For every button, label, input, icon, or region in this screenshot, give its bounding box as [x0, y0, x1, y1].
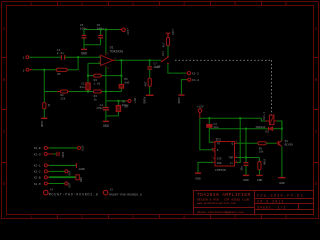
svg-text:100n: 100n — [80, 27, 87, 30]
svg-text:D1: D1 — [265, 131, 269, 134]
svg-text:B: B — [3, 77, 6, 83]
wire AGND branch vertical — [43, 70, 45, 92]
svg-text:TR: TR — [217, 142, 221, 145]
node top rail U1 supply — [105, 29, 107, 31]
ground GND below C4 — [105, 116, 107, 121]
wire +12V top rail — [84, 29, 120, 31]
wire U1 supply rail — [105, 30, 107, 54]
svg-text:220u: 220u — [122, 104, 129, 107]
svg-text:GND: GND — [80, 177, 83, 182]
svg-text:D: D — [315, 181, 318, 187]
node THR cv junction — [245, 157, 247, 159]
svg-text:2.2u: 2.2u — [57, 52, 64, 55]
relay switch RL1 — [167, 56, 169, 58]
svg-text:THR: THR — [228, 157, 233, 160]
frame column numbers top — [30, 1, 288, 7]
svg-text:X4-2: X4-2 — [192, 79, 199, 82]
wire rail corner to coil — [261, 118, 265, 121]
ground GND c10 — [243, 174, 249, 176]
svg-text:+12V: +12V — [81, 145, 84, 152]
wire output node row — [106, 100, 126, 102]
node row CV branch — [245, 128, 247, 130]
node row B rail — [87, 91, 89, 93]
svg-text:2: 2 — [81, 214, 84, 220]
svg-text:RL1-1: RL1-1 — [263, 112, 266, 120]
svg-text:1N4004: 1N4004 — [255, 126, 265, 129]
node plus input junction — [77, 56, 79, 58]
resistor R5 on feedback rail — [120, 60, 122, 91]
mount pad X2 — [103, 190, 108, 195]
wire R9 to Q1 base — [266, 142, 276, 144]
node out row cap C8 — [117, 100, 119, 102]
svg-text:K2-B: K2-B — [34, 177, 41, 180]
capacitor C6 — [100, 30, 102, 45]
svg-text:10k: 10k — [259, 150, 264, 154]
dashed relay actuation line horizontal — [175, 59, 272, 61]
node collector diode junction — [281, 128, 283, 130]
svg-text:+12V: +12V — [126, 28, 129, 35]
svg-text:GND: GND — [243, 179, 249, 182]
svg-text:23.3.2012: 23.3.2012 — [257, 201, 284, 205]
svg-text:22k: 22k — [60, 96, 65, 100]
svg-text:K3-B: K3-B — [34, 147, 41, 150]
ground AGND below X4-2 — [178, 94, 184, 96]
svg-text:1: 1 — [30, 214, 33, 220]
wire C1 to U1 plus input — [65, 56, 101, 58]
frame section ticks left — [2, 58, 7, 163]
frame section ticks bottom — [58, 215, 262, 219]
svg-text:D: D — [3, 181, 6, 187]
svg-text:Sheet: 1/1: Sheet: 1/1 — [257, 206, 286, 211]
svg-text:LM555N: LM555N — [215, 169, 226, 172]
svg-text:LSP: LSP — [155, 66, 160, 69]
wire relay to X3-2 — [168, 64, 186, 73]
svg-text:1: 1 — [30, 1, 33, 7]
svg-text:C: C — [315, 129, 318, 135]
svg-text:GND: GND — [103, 124, 109, 128]
svg-text:1M: 1M — [57, 73, 61, 76]
svg-text:K2-1: K2-1 — [34, 165, 41, 168]
svg-text:K3-O: K3-O — [34, 153, 41, 156]
svg-text:denon-vincasound@gmail.com: denon-vincasound@gmail.com — [197, 210, 244, 214]
svg-text:2: 2 — [81, 1, 84, 7]
ground GND q1 — [278, 177, 285, 179]
relay coil K1 — [269, 115, 274, 124]
ground GND under C5 — [83, 45, 85, 49]
resistor R3 1.8k — [94, 74, 102, 77]
node rail Vplus — [239, 117, 241, 119]
svg-text:X2: X2 — [110, 189, 114, 192]
svg-text:4R7: 4R7 — [144, 81, 147, 86]
svg-text:AGND: AGND — [142, 97, 145, 104]
svg-text:2: 2 — [23, 69, 25, 72]
svg-text:X4: X4 — [50, 189, 54, 192]
pin 3 stub U1 — [105, 66, 107, 68]
svg-text:www.audiodesignclub.com: www.audiodesignclub.com — [197, 201, 236, 205]
frame row letters right — [315, 26, 318, 187]
svg-text:RL1: RL1 — [162, 51, 165, 56]
svg-text:AGND: AGND — [177, 97, 180, 104]
node output feedback tap — [120, 59, 122, 61]
svg-text:DIS: DIS — [217, 157, 222, 160]
wire K2-B row thick — [49, 176, 76, 178]
transistor Q1 — [278, 141, 280, 146]
wire IC1 GND pin to ground — [198, 162, 213, 172]
svg-text:GND: GND — [81, 52, 87, 56]
power flag OUT — [128, 99, 131, 102]
wire K2-2 row — [49, 170, 64, 172]
capacitor C8 220u — [117, 101, 119, 116]
node rail C3 — [208, 117, 210, 119]
capacitor C7 zobel — [149, 60, 151, 78]
power flag +12V top — [120, 29, 122, 31]
svg-text:GND: GND — [257, 179, 263, 182]
svg-text:TDA2030 AMPLIFIER: TDA2030 AMPLIFIER — [197, 192, 251, 198]
svg-text:3: 3 — [132, 1, 135, 7]
svg-text:AGND: AGND — [40, 121, 43, 128]
mount pad X4 — [44, 190, 49, 195]
svg-text:OUT: OUT — [68, 170, 71, 175]
capacitor C3 — [208, 118, 210, 129]
resistor R4 1k — [94, 90, 102, 93]
wire caps bottom row — [106, 115, 119, 117]
svg-text:IC1: IC1 — [215, 137, 221, 141]
resistor R6 zobel 4R7 — [148, 78, 151, 86]
wire feedback row B — [44, 91, 121, 93]
node input2 junction — [43, 69, 45, 71]
frame section ticks right — [314, 58, 319, 163]
frame section ticks top — [58, 2, 262, 6]
wire C5 C6 bottom row — [84, 44, 101, 46]
wire collector rail — [281, 121, 283, 141]
power flag +12V k3 — [78, 146, 81, 149]
svg-text:GND: GND — [195, 177, 201, 180]
svg-text:AGND: AGND — [79, 168, 86, 171]
wire minus input row — [88, 62, 101, 64]
capacitor C10 — [244, 163, 249, 166]
capacitor C2 22u — [86, 83, 90, 90]
wire C2 rail — [87, 63, 89, 91]
svg-text:100n: 100n — [61, 152, 64, 159]
pin 4 bubble — [213, 149, 215, 151]
capacitor C1 — [61, 55, 64, 60]
svg-text:4: 4 — [183, 214, 186, 220]
svg-text:22u: 22u — [80, 86, 85, 89]
capacitor C4 — [105, 101, 107, 116]
svg-text:4k7: 4k7 — [162, 42, 166, 47]
svg-text:MOUNT-PAD-ROUND2.8: MOUNT-PAD-ROUND2.8 — [49, 192, 99, 196]
dashed relay actuation line vertical — [271, 60, 273, 115]
svg-text:100u: 100u — [97, 27, 104, 30]
wire C3 bottom row to diode — [209, 128, 268, 130]
wire +12V rail mid — [200, 117, 261, 119]
wire feedback row A — [88, 75, 121, 77]
connector pad input 2 — [26, 68, 29, 71]
svg-text:OUT: OUT — [68, 182, 71, 187]
pin 5 stub U1 — [105, 53, 107, 55]
svg-text:GND: GND — [217, 162, 222, 165]
ground GND ic1 — [195, 172, 201, 174]
svg-text:K2-2: K2-2 — [34, 171, 41, 174]
node top rail C6 — [100, 29, 102, 31]
wire K2-M row — [49, 183, 64, 185]
IC1 555 box — [215, 142, 235, 167]
node C2 rail row A — [87, 75, 89, 77]
svg-text:A: A — [3, 26, 6, 32]
svg-text:GND: GND — [279, 182, 285, 185]
svg-text:10n: 10n — [240, 166, 243, 171]
wire jog junction down to R1 row — [77, 57, 79, 70]
svg-text:OUT: OUT — [133, 98, 136, 103]
resistor R8 to AGND lower left — [43, 92, 45, 103]
svg-text:5: 5 — [234, 1, 237, 7]
terminator GND k2-b — [76, 175, 79, 180]
svg-text:5: 5 — [234, 214, 237, 220]
diode D1 — [267, 127, 269, 131]
resistor R9 10k — [258, 142, 266, 145]
wire X4-2 to AGND — [186, 79, 188, 81]
ground AGND zobel — [146, 94, 154, 96]
ground GND r10 — [256, 174, 262, 176]
svg-text:TDA2030: TDA2030 — [110, 49, 123, 53]
svg-text:B: B — [315, 77, 318, 83]
svg-text:6: 6 — [285, 1, 288, 7]
svg-text:+12V: +12V — [171, 28, 174, 35]
svg-text:1.8k: 1.8k — [94, 82, 101, 86]
title block — [194, 191, 314, 215]
resistor R2 22k — [60, 90, 67, 93]
wire THR row — [237, 157, 259, 159]
resistor R7 4k7 — [166, 38, 169, 46]
wire K2-1 row — [49, 164, 76, 166]
wire K3-B row — [49, 147, 77, 149]
wire input1 to C1 — [29, 56, 61, 58]
svg-text:100k: 100k — [262, 159, 266, 166]
title block text — [197, 192, 304, 214]
connector X3-2 — [187, 72, 190, 75]
node row B pin3 — [105, 91, 107, 93]
svg-text:MOUNT-PAD-ROUND2.8: MOUNT-PAD-ROUND2.8 — [109, 193, 142, 196]
svg-text:1k: 1k — [94, 98, 98, 102]
wire Vplus pin to rail — [237, 118, 240, 162]
wire zobel to ground — [149, 86, 151, 94]
wire R7 to relay contact — [167, 46, 169, 57]
svg-text:X3-2: X3-2 — [192, 73, 199, 76]
op-amp U1 TDA2030 — [101, 55, 113, 65]
svg-text:1k: 1k — [47, 104, 51, 108]
connector pad input 1 — [26, 56, 29, 59]
frame column numbers bottom — [30, 214, 288, 220]
power +12V bar top right — [166, 33, 171, 37]
capacitor k3 small — [57, 152, 59, 156]
svg-text:BC639: BC639 — [285, 143, 294, 146]
capacitor C5 — [83, 30, 85, 45]
flag k2-m — [65, 182, 68, 185]
svg-text:C: C — [3, 129, 6, 135]
terminator AGND k2-1 — [75, 163, 77, 168]
wire emitter to ground — [281, 147, 283, 178]
svg-text:tda_2030_FV_DL: tda_2030_FV_DL — [257, 193, 304, 198]
svg-text:+12V: +12V — [196, 105, 203, 108]
ground AGND lower left — [41, 117, 47, 119]
wire U1 pin3 rail — [105, 67, 107, 101]
svg-text:680: 680 — [124, 81, 129, 84]
wire Q pin row to base resistor — [237, 142, 258, 144]
svg-text:V+: V+ — [230, 162, 234, 165]
wire output row U1 — [113, 59, 115, 61]
frame row letters left — [3, 26, 6, 187]
flag k2-2 — [65, 170, 68, 173]
wire pin4 rail down — [200, 118, 213, 150]
resistor R1 1M — [56, 68, 67, 71]
connector X4-2 — [188, 78, 191, 81]
svg-text:470n: 470n — [96, 107, 103, 110]
wire input2 row — [29, 69, 32, 71]
pin stubs IC1 left — [213, 142, 215, 162]
pin stubs IC1 right — [235, 143, 238, 162]
wire CV branch vertical — [245, 129, 247, 163]
svg-text:K2-M: K2-M — [34, 183, 41, 186]
resistor R10 100k — [258, 158, 260, 162]
svg-text:6: 6 — [285, 214, 288, 220]
svg-text:3: 3 — [132, 214, 135, 220]
svg-text:4: 4 — [183, 1, 186, 7]
svg-text:1: 1 — [23, 57, 25, 60]
node output zobel tap — [149, 59, 151, 61]
svg-text:A: A — [315, 26, 318, 32]
wire C3 row down to pin2 — [209, 129, 213, 143]
node row A right — [120, 75, 122, 77]
